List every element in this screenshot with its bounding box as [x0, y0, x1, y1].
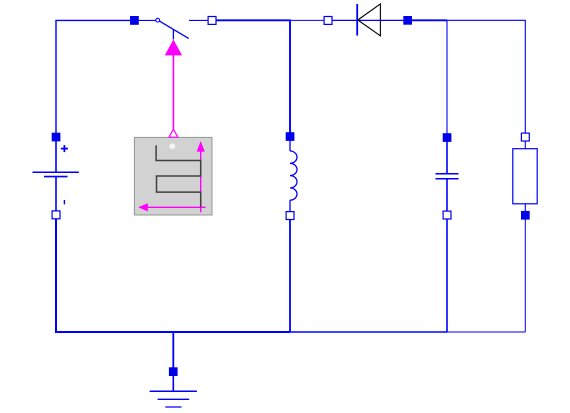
- pin switch left: [130, 16, 139, 25]
- resistor R1: [513, 141, 537, 212]
- PWM control block U1: [134, 137, 212, 215]
- wire: [524, 215, 526, 332]
- pin resistor top: [521, 133, 529, 141]
- wire: [212, 20, 290, 136]
- pin ground: [169, 367, 178, 376]
- pin inductor top: [286, 132, 295, 141]
- wire: [446, 215, 448, 332]
- battery V1: [33, 140, 79, 212]
- diode D1: [332, 4, 404, 36]
- pin resistor bottom: [521, 211, 530, 220]
- wire: [290, 331, 447, 333]
- pin diode right: [403, 16, 412, 25]
- pin diode left: [324, 17, 332, 25]
- wire: [447, 20, 526, 137]
- capacitor C1: [436, 141, 459, 212]
- ground G1: [150, 374, 197, 407]
- wire: [290, 19, 328, 21]
- wire: [172, 332, 174, 372]
- wire: [447, 331, 525, 333]
- boolean signal wire: [165, 40, 182, 138]
- pin inductor bottom: [286, 212, 294, 220]
- wire: [289, 216, 291, 333]
- pin capacitor top: [443, 133, 452, 142]
- wire: [56, 215, 290, 332]
- pin capacitor bottom: [443, 211, 451, 219]
- wire: [408, 19, 447, 21]
- inductor L1: [290, 140, 297, 212]
- wire: [446, 20, 448, 137]
- pin battery minus: [52, 211, 60, 219]
- pin switch right: [208, 17, 216, 25]
- pin battery plus: [52, 133, 61, 142]
- wire: [56, 20, 134, 137]
- switch S1: [138, 18, 209, 39]
